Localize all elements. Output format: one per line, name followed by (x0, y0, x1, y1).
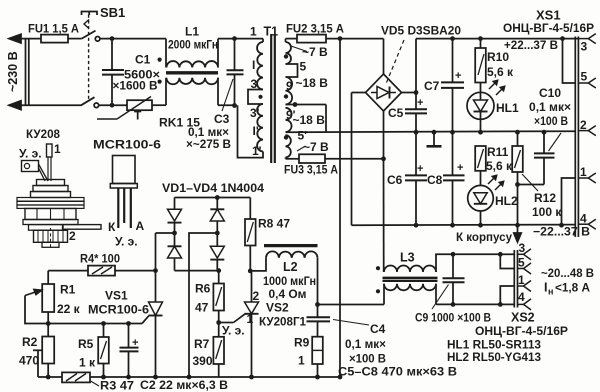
svg-text:22 к: 22 к (57, 302, 81, 316)
capacitor C9 (452, 254, 454, 278)
svg-text:R9: R9 (294, 336, 310, 350)
thyristor VS1 gate (142, 316, 149, 324)
svg-text:×100 В: ×100 В (534, 114, 568, 128)
svg-text:+: + (132, 337, 138, 349)
svg-text:С5–С8 470 мк×63 В: С5–С8 470 мк×63 В (338, 365, 457, 379)
node junction C2 bottom (126, 375, 131, 380)
wire 0V rail (286, 131, 576, 132)
wire L3 top right (436, 254, 500, 272)
svg-text:+: + (417, 163, 423, 175)
node junction V1 top (338, 36, 343, 41)
wire gate rail (48, 323, 142, 325)
node junction R10 top (478, 36, 483, 41)
wire minus rail (352, 224, 576, 227)
svg-text:R6: R6 (195, 282, 211, 296)
switch SB1 pole top (82, 31, 96, 39)
svg-text:0,1 мк×: 0,1 мк× (345, 337, 386, 351)
svg-text:4: 4 (580, 212, 587, 226)
node junction L2 C4 (315, 302, 320, 307)
resistor R10 (480, 39, 482, 48)
svg-text:L2: L2 (283, 260, 298, 274)
wire plus riser (415, 39, 417, 93)
svg-text:R12: R12 (534, 191, 556, 205)
svg-text:VD5 D3SBA20: VD5 D3SBA20 (381, 24, 461, 38)
svg-text:MCR100-6: MCR100-6 (93, 138, 161, 152)
svg-text:+: + (417, 97, 423, 109)
node junction chassis arrow (515, 223, 520, 228)
node junction VD bottom R6 (216, 268, 221, 273)
svg-text:390: 390 (193, 354, 213, 368)
wire tap9 stub (286, 104, 327, 106)
wire mains cable double line (25, 39, 27, 106)
transformer T1 primary jog (248, 90, 263, 105)
inductor L3 phase dots (376, 266, 380, 270)
svg-text:2: 2 (580, 118, 587, 132)
resistor R2 (47, 324, 49, 337)
svg-text:С3: С3 (214, 112, 230, 126)
svg-text:~7 В: ~7 В (302, 45, 328, 59)
svg-text:FU3 3,15 А: FU3 3,15 А (284, 163, 338, 177)
resistor R7 (218, 323, 220, 337)
svg-text:3': 3' (250, 106, 260, 120)
capacitor C3 (234, 39, 236, 71)
svg-text:2000 мкГн: 2000 мкГн (168, 38, 218, 52)
svg-text:5: 5 (300, 60, 307, 74)
svg-text:С4: С4 (370, 322, 386, 336)
node junction XS1 pin5 branch (560, 36, 565, 41)
svg-text:R5: R5 (78, 337, 94, 351)
node junction VS1 cathode (153, 375, 158, 380)
node junction R10 bottom (478, 130, 483, 135)
svg-text:3: 3 (581, 40, 588, 54)
capacitor C5 (415, 93, 417, 110)
svg-text:У. э.: У. э. (115, 235, 138, 249)
transformer T1 secondary winding b (286, 77, 293, 105)
node junction C7 top (450, 36, 455, 41)
svg-text:R7: R7 (194, 337, 210, 351)
svg-text:1: 1 (518, 273, 525, 287)
node junction C9 top (451, 252, 456, 257)
node junction AC2 bottom rail (187, 375, 192, 380)
connector XS1 body (574, 37, 576, 238)
connector XS2 body (513, 250, 515, 308)
svg-text:2: 2 (69, 229, 76, 243)
svg-text:×1600 В: ×1600 В (113, 79, 158, 93)
node junction R2 bottom (46, 375, 51, 380)
svg-text:ОНЦ-ВГ-4-5/16Р: ОНЦ-ВГ-4-5/16Р (503, 21, 594, 35)
transformer T1 secondary winding c (286, 108, 292, 132)
resistor R3 (62, 372, 90, 382)
svg-text:КУ208Г1: КУ208Г1 (259, 315, 306, 329)
resistor R9 (312, 337, 323, 364)
led HL2 arrows (488, 176, 496, 184)
svg-text:I: I (544, 281, 547, 295)
wire mid output rail (318, 304, 385, 306)
capacitor C7 (452, 39, 454, 83)
node junction R12 C10 (515, 182, 520, 187)
led HL1 (467, 92, 494, 119)
svg-text:5: 5 (518, 256, 525, 270)
wire L1 bottom right (218, 104, 235, 106)
thyristor VS2 (251, 271, 253, 302)
node junction C1 bottom (110, 103, 115, 108)
svg-text:XS2: XS2 (511, 311, 535, 325)
switch SB1 pole bottom (81, 97, 94, 105)
transformer T1 primary winding I2 (257, 104, 263, 152)
node junction C2 top (126, 321, 131, 326)
wire XS2 pin4 (500, 303, 514, 305)
svg-text:1 к: 1 к (79, 356, 96, 370)
svg-text:ОНЦ-ВГ-4-5/16Р: ОНЦ-ВГ-4-5/16Р (475, 324, 568, 338)
mains input arrow top (9, 34, 21, 43)
svg-text:С9 1000 ×100 В: С9 1000 ×100 В (415, 311, 491, 325)
svg-text:У. э.: У. э. (222, 324, 245, 338)
wire XS2 pin3 (500, 253, 514, 255)
wire R12 to minus rail (517, 185, 519, 226)
resistor R1 (47, 271, 49, 284)
inductor L2 core (264, 244, 318, 247)
transformer T1 primary winding I (257, 42, 263, 90)
svg-text:0,1 мк×: 0,1 мк× (529, 100, 571, 114)
svg-text:С2 22 мк×6,3 В: С2 22 мк×6,3 В (140, 378, 228, 392)
wire chassis arrow (517, 225, 519, 236)
mains input arrow bottom (9, 101, 21, 110)
node junction C6 bottom (414, 223, 419, 228)
wire bridge left stub (352, 92, 366, 94)
svg-text:0,4 Ом: 0,4 Ом (269, 287, 307, 301)
led HL2 (468, 185, 494, 211)
svg-text:1000 мкГн: 1000 мкГн (263, 274, 316, 288)
node junction R1 bottom (46, 321, 51, 326)
wire tap vertical (325, 105, 327, 133)
svg-text:VS2: VS2 (266, 301, 289, 315)
transformer T1 core (270, 34, 272, 163)
node junction R9 rail (315, 375, 320, 380)
wire XS1 pin5 link (563, 39, 576, 83)
svg-text:+: + (455, 70, 461, 82)
wire FU3 left (286, 158, 300, 160)
svg-text:С10: С10 (539, 86, 561, 100)
svg-text:×~275 В: ×~275 В (186, 137, 231, 151)
connector XS1 pins (578, 38, 588, 40)
svg-text:1: 1 (247, 312, 254, 326)
svg-text:HL2: HL2 (495, 194, 518, 208)
node junction pin1 minus (559, 223, 564, 228)
wire VD AC tap right (189, 233, 217, 377)
svg-text:470: 470 (19, 354, 39, 368)
capacitor C4 pointer (333, 320, 369, 326)
svg-text:~230 В: ~230 В (6, 51, 20, 92)
wire VD top rail (175, 197, 251, 199)
node junction C5 bottom (414, 130, 419, 135)
fuse FU1 (41, 35, 68, 43)
rectifier VD5 diode symbol (371, 92, 377, 94)
wire T1 primary bottom return (238, 105, 264, 157)
node junction R5 bottom (101, 375, 106, 380)
node junction C1 top (110, 36, 115, 41)
svg-text:5,6 к: 5,6 к (487, 65, 514, 79)
switch SB1 motion mark (84, 20, 89, 29)
wire XS2 pin1 link (500, 286, 514, 304)
resistor R4 (48, 270, 88, 272)
connector XS2 pins (518, 253, 524, 255)
node junction bridge plus (414, 90, 419, 95)
svg-text:R11: R11 (487, 145, 509, 159)
svg-text:Т: Т (134, 109, 142, 123)
capacitor C4 (317, 305, 319, 318)
svg-text:R4* 100: R4* 100 (80, 252, 120, 266)
wire plus rail (416, 38, 570, 40)
capacitor C3 pointer (222, 79, 233, 111)
transformer T1 secondary winding d (286, 135, 291, 157)
svg-text:4: 4 (518, 290, 525, 304)
svg-text:FU2 3,15 А: FU2 3,15 А (286, 22, 344, 36)
resistor R1 wiper (25, 296, 48, 324)
node junction C10 top (542, 130, 547, 135)
svg-text:~7 В: ~7 В (303, 140, 329, 154)
svg-text:5,6 к: 5,6 к (486, 159, 513, 173)
switch SB1 linkage dashed (88, 15, 90, 102)
resistor R11 (475, 146, 486, 171)
node junction VD3 VD4 (215, 231, 220, 236)
svg-text:~18 В: ~18 В (293, 113, 326, 127)
svg-text:1: 1 (580, 165, 587, 179)
transformer T1 primary phase dot (258, 95, 262, 99)
diode VD2 (174, 233, 176, 246)
svg-text:+22...37 В: +22...37 В (504, 38, 558, 52)
wire VD AC tap left (156, 232, 175, 234)
svg-text:VD1–VD4 1N4004: VD1–VD4 1N4004 (162, 181, 264, 195)
svg-text:VS1: VS1 (105, 289, 128, 303)
svg-text:+: + (457, 162, 463, 174)
wire XS1 pin1 link (562, 178, 576, 225)
wire V1 line (339, 39, 341, 377)
fuse FU3 (299, 154, 325, 163)
ground chassis stub (432, 130, 437, 135)
inductor L2 winding (266, 251, 318, 257)
node junction R6 R7 gate (216, 320, 221, 325)
svg-text:×100 В: ×100 В (349, 352, 386, 366)
inductor L1 phase dot top (158, 58, 162, 62)
resistor R5 (103, 324, 105, 338)
svg-text:FU1 1,5 А: FU1 1,5 А (28, 22, 79, 36)
svg-text:Т1: Т1 (264, 25, 279, 39)
node junction C3 top (232, 36, 237, 41)
svg-text:HL2 RL50-YG413: HL2 RL50-YG413 (447, 350, 541, 364)
inductor L3 core (383, 277, 438, 279)
svg-text:3: 3 (519, 241, 526, 255)
svg-text:К: К (108, 220, 116, 234)
node junction R5 top (101, 321, 106, 326)
svg-text:С8: С8 (427, 173, 443, 187)
svg-text:I: I (252, 58, 255, 72)
node junction C3 bottom (232, 103, 237, 108)
wire XS1 pin3 link (570, 38, 578, 40)
wire SB1 bottom to RK1 (99, 104, 127, 106)
wire XS2 pin5 link (500, 254, 514, 268)
inductor L1 core (166, 71, 218, 74)
svg-text:~20...48 В: ~20...48 В (541, 266, 594, 280)
svg-text:1: 1 (250, 25, 257, 39)
node junction XS2 pin1 branch (498, 302, 503, 307)
wire L3 bottom left (383, 284, 385, 305)
svg-text:2: 2 (253, 289, 260, 303)
svg-text:С5: С5 (388, 106, 404, 120)
switch SB1 bracket (82, 12, 98, 16)
node junction bridge AC2 (381, 156, 386, 161)
wire T1 pin1 top (262, 39, 264, 42)
wire bridge right stub (402, 92, 417, 94)
node junction XS2 pin5 branch (498, 252, 503, 257)
wire T1 sec top (286, 38, 298, 40)
node junction HL2 bottom (478, 223, 483, 228)
diode VD1 (174, 198, 176, 210)
resistor R2 tap (33, 349, 42, 351)
svg-text:1: 1 (298, 354, 305, 368)
svg-text:SB1: SB1 (100, 5, 125, 20)
svg-text:К корпусу: К корпусу (456, 230, 512, 244)
resistor R6 (218, 271, 220, 284)
wire FU3 to bridge (325, 158, 384, 160)
svg-text:1': 1' (252, 144, 262, 158)
wire bottom rail (38, 376, 62, 378)
wire L1 top right (217, 39, 219, 68)
svg-text:У. э.: У. э. (19, 147, 42, 161)
fuse FU2 (297, 35, 326, 43)
capacitor C1 (111, 39, 113, 70)
wire SB1 top to C1 (100, 38, 166, 40)
svg-text:47: 47 (195, 301, 209, 315)
transformer T1 secondary phase dots (284, 54, 288, 58)
wire VD bottom rail (175, 270, 219, 272)
svg-text:R3 47: R3 47 (100, 379, 134, 392)
thermistor RK1 (127, 100, 152, 110)
svg-text:MCR100-6: MCR100-6 (88, 303, 149, 317)
svg-text:HL1: HL1 (496, 101, 519, 115)
thyristor VS1 (149, 302, 163, 316)
inductor L1 bottom winding (167, 78, 219, 84)
capacitor C10 (543, 132, 545, 153)
wire FU1 to SB1 (68, 38, 82, 40)
svg-text:R2: R2 (22, 335, 38, 349)
inductor L1 top winding (165, 39, 167, 68)
svg-text:1: 1 (54, 142, 61, 156)
node junction VD tops (215, 195, 220, 200)
node junction R4 VS1 (153, 268, 158, 273)
svg-text:R10: R10 (487, 50, 509, 64)
svg-text:<1,8 А: <1,8 А (555, 281, 590, 295)
inductor L1 phase dot bottom (158, 80, 162, 84)
capacitor C9 pointer (432, 285, 449, 310)
svg-text:3: 3 (251, 77, 258, 91)
resistor R8 (249, 198, 251, 220)
inductor L3 bottom winding (384, 284, 436, 291)
svg-text:А: А (136, 219, 145, 233)
transformer T1 secondary winding a (285, 39, 287, 42)
svg-text:9: 9 (286, 79, 293, 93)
svg-text:5: 5 (581, 70, 588, 84)
svg-text:С6: С6 (387, 173, 403, 187)
wire FU2 to bridge (326, 38, 384, 40)
wire VS1 anode line (155, 233, 157, 302)
svg-text:С7: С7 (424, 79, 440, 93)
svg-text:L3: L3 (400, 251, 415, 265)
node junction R12 top (515, 130, 520, 135)
svg-text:С1: С1 (135, 53, 151, 67)
svg-text:~18 В: ~18 В (296, 76, 329, 90)
svg-text:КУ208: КУ208 (26, 127, 60, 141)
inductor L3 top winding (384, 266, 436, 272)
node junction C8 bottom (450, 223, 455, 228)
svg-text:R1: R1 (60, 283, 76, 297)
svg-text:L1: L1 (185, 25, 199, 39)
diode VD3 (216, 198, 218, 210)
wire bridge bottom to FU3 and L3 (383, 111, 385, 159)
rectifier VD5 diamond (366, 74, 402, 111)
node junction C7 bottom (450, 130, 455, 135)
rectifier VD5 pointer dashed (386, 40, 405, 85)
capacitor C6 (415, 132, 417, 175)
node junction V1 bottom (338, 375, 343, 380)
svg-text:100 к: 100 к (532, 205, 562, 219)
svg-text:R8 47: R8 47 (258, 217, 290, 231)
node junction R8 L2 VS2 (248, 269, 253, 274)
wire bridge top feed (383, 39, 385, 74)
diode VD4 (216, 233, 218, 246)
node junction VD1 VD2 (172, 231, 177, 236)
wire V2 minus line (351, 93, 353, 226)
wire L3 bottom right (435, 284, 437, 305)
transformer T1 secondary tap5 jog (286, 64, 298, 77)
resistor R12 (517, 132, 519, 146)
thyristor VS2 gate (234, 314, 246, 323)
svg-text:I': I' (253, 124, 259, 138)
node junction VS2 cathode rail (249, 375, 254, 380)
led HL1 arrows (489, 81, 497, 89)
node junction C9 bottom (451, 302, 456, 307)
capacitor C2 (128, 324, 130, 348)
svg-text:н: н (548, 287, 553, 297)
capacitor C8 (452, 132, 454, 175)
